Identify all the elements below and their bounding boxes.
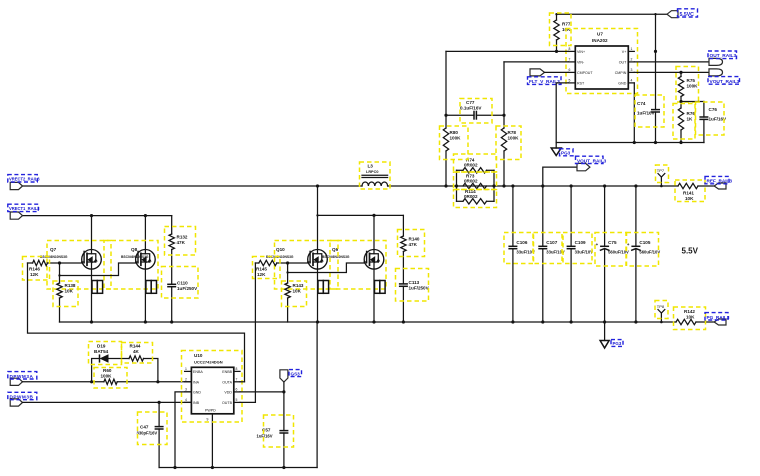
highlight boxes MOSFETs (47, 241, 111, 290)
svg-text:6: 6 (569, 68, 571, 72)
wire Q9 source (373, 269, 375, 322)
svg-text:VIN-: VIN- (577, 60, 585, 64)
wire 5.5VC top rail (557, 13, 668, 15)
port VRECT1_RAIL3 (8, 204, 40, 219)
svg-text:8: 8 (236, 367, 238, 371)
wire right drain branch (y=215.4) (318, 214, 404, 216)
svg-text:2: 2 (185, 378, 187, 382)
svg-text:INA202: INA202 (592, 38, 608, 43)
svg-text:C106: C106 (516, 240, 527, 245)
svg-text:CMPIN: CMPIN (615, 71, 627, 75)
port OUT_RAIL3 (708, 51, 737, 65)
svg-text:CMPOUT: CMPOUT (577, 71, 593, 75)
port 5.5VC (667, 9, 698, 18)
resistor R114 0R002 (454, 189, 497, 208)
wire Q8 source (144, 269, 146, 322)
resistor R144 4K (122, 343, 158, 382)
svg-text:10K: 10K (685, 196, 694, 201)
svg-text:BSC046N10NS3G: BSC046N10NS3G (40, 255, 68, 259)
svg-text:C47: C47 (140, 425, 149, 430)
svg-text:4: 4 (185, 398, 187, 402)
wire main VRECT2 rail (y=186) (23, 185, 363, 187)
wire OUTB corner (240, 401, 255, 403)
capacitor C77 0.1uF/16V (444, 99, 505, 124)
resistor R146 12K gate feed (23, 257, 82, 281)
svg-text:FLT_V_RAIL3: FLT_V_RAIL3 (529, 79, 560, 85)
capacitor C75 560uF/10V (596, 184, 629, 323)
wire V+ riser (655, 14, 657, 51)
transistor Q9 BSC046N10NS3G (322, 247, 384, 269)
capacitor C110 1uF/250V (162, 267, 199, 323)
svg-text:VRECT2_RAIL3: VRECT2_RAIL3 (9, 177, 40, 182)
svg-text:L3: L3 (368, 164, 374, 169)
capacitor C57 1uF/16V (257, 392, 294, 468)
wire Q9 drain riser (373, 215, 375, 249)
svg-text:R144: R144 (130, 344, 141, 349)
svg-text:6: 6 (236, 388, 238, 392)
port REF_RAIL3 (705, 176, 732, 189)
svg-text:33uF/10V: 33uF/10V (575, 250, 594, 255)
wire OUTA to left-pair feed (240, 381, 245, 383)
capacitor C106 33uF/10V (508, 184, 535, 323)
svg-text:1: 1 (631, 47, 633, 51)
svg-text:RST: RST (577, 81, 585, 85)
resistor R60 100K (94, 368, 127, 389)
wire OUTA feed line (y=333) (28, 263, 245, 382)
svg-text:12K: 12K (257, 272, 266, 277)
port PG_RAIL3 (705, 313, 730, 325)
svg-text:100K: 100K (101, 374, 113, 379)
svg-text:GND: GND (618, 81, 626, 85)
svg-text:BAT54: BAT54 (94, 349, 109, 354)
svg-text:R78: R78 (508, 130, 517, 135)
svg-text:10K: 10K (293, 289, 302, 294)
wire PGND bus (y=322) (60, 321, 677, 323)
svg-text:1K: 1K (687, 117, 694, 122)
svg-text:C109: C109 (575, 240, 586, 245)
svg-text:330pF/16V: 330pF/16V (137, 431, 158, 436)
svg-text:33uF/10V: 33uF/10V (516, 250, 535, 255)
wire INA line (23, 381, 104, 383)
svg-text:Q7: Q7 (50, 247, 57, 252)
wire INB line (23, 401, 192, 403)
test point TP7 (656, 165, 669, 187)
svg-text:Q10: Q10 (276, 247, 285, 252)
wire VDD line (240, 391, 284, 393)
svg-text:4K: 4K (133, 349, 140, 354)
pin 9 pad stub (211, 414, 213, 468)
wire analog ground bus (556, 142, 704, 144)
resistor R76 1K (673, 102, 695, 143)
svg-text:INB: INB (193, 401, 200, 405)
svg-text:9: 9 (207, 418, 209, 422)
wire VIN- sense (504, 61, 568, 63)
svg-text:1uF/16V: 1uF/16V (637, 111, 656, 116)
resistor R77 10K (550, 13, 572, 53)
svg-text:TP8: TP8 (657, 304, 665, 309)
svg-text:VOUT_RAIL3: VOUT_RAIL3 (710, 79, 740, 85)
capacitor C109 33uF/10V (567, 184, 594, 323)
resistor R142 10K (674, 307, 715, 330)
svg-text:PG3: PG3 (561, 151, 571, 156)
svg-text:10K: 10K (686, 315, 695, 320)
svg-text:R143: R143 (293, 283, 304, 288)
svg-text:PG_RAIL3: PG_RAIL3 (707, 315, 730, 320)
port DPWM3B (8, 392, 37, 406)
svg-text:4: 4 (631, 79, 633, 83)
svg-text:3: 3 (185, 388, 187, 392)
port VOUT_RAIL3 (mid) (576, 156, 607, 171)
port VOUT_RAIL3 (top) (708, 69, 740, 85)
svg-text:100K: 100K (450, 136, 462, 141)
svg-text:R75: R75 (687, 78, 696, 83)
svg-text:TP7: TP7 (657, 168, 665, 173)
svg-text:ENBB: ENBB (222, 370, 232, 374)
wire Q10 drain column from main rail (317, 186, 319, 250)
op-amp U7 INA202 (566, 29, 638, 94)
svg-text:PWPD: PWPD (205, 409, 216, 413)
gate clamp dual-box (146, 281, 157, 294)
svg-text:C113: C113 (409, 280, 420, 285)
svg-text:47K: 47K (177, 240, 186, 245)
svg-text:0R002: 0R002 (464, 163, 478, 168)
ground PG3 (bottom) (600, 322, 623, 348)
svg-text:C105: C105 (639, 240, 650, 245)
resistor R140 47K snubber (398, 215, 425, 284)
svg-text:ENBA: ENBA (193, 370, 203, 374)
svg-text:OUTA: OUTA (222, 380, 232, 384)
gate clamp dual-box (318, 281, 329, 294)
wire CMPIN to port (634, 71, 709, 73)
svg-text:7: 7 (569, 58, 571, 62)
capacitor C105 560uF/10V (627, 184, 660, 323)
resistor R143 10K gate pulldown (282, 273, 307, 323)
svg-text:R145: R145 (256, 267, 267, 272)
svg-text:LRPC0: LRPC0 (366, 170, 378, 174)
svg-text:100K: 100K (508, 136, 520, 141)
svg-text:1uF/250V: 1uF/250V (177, 286, 198, 291)
svg-text:7: 7 (236, 378, 238, 382)
svg-text:560uF/10V: 560uF/10V (639, 250, 660, 255)
svg-text:U10: U10 (194, 353, 203, 358)
wire Q7 drain riser (91, 216, 93, 250)
svg-text:VDD: VDD (224, 390, 232, 394)
wire riser to bottom bus (316, 322, 318, 468)
test point TP8 (655, 301, 668, 324)
svg-text:OUTB: OUTB (222, 401, 233, 405)
port DPWM3A (8, 372, 37, 386)
svg-text:DPWM3A: DPWM3A (10, 374, 34, 379)
svg-text:Q8: Q8 (131, 247, 138, 252)
wire OUT to port (634, 61, 709, 63)
resistor R73 0R002 (in line) (454, 172, 497, 190)
wire Q10 source (317, 269, 319, 322)
svg-text:0R002: 0R002 (464, 194, 478, 199)
svg-text:8: 8 (569, 47, 571, 51)
svg-text:PG3: PG3 (613, 341, 622, 346)
svg-text:GND: GND (193, 390, 201, 394)
wire GND pin riser (633, 83, 635, 143)
svg-text:R146: R146 (29, 267, 40, 272)
highlight boxes cap bank (504, 233, 533, 264)
wire VOUT tap (543, 167, 577, 186)
svg-text:C110: C110 (177, 281, 188, 286)
svg-text:5: 5 (569, 79, 571, 83)
capacitor C74 1uF/16V (635, 51, 664, 142)
svg-text:R141: R141 (683, 191, 694, 196)
IC U10 UCC27424DGN gate driver (182, 351, 243, 468)
svg-text:10K: 10K (65, 289, 74, 294)
capacitor C107 33uF/10V (538, 184, 565, 323)
capacitor C113 1uF/250V (396, 269, 430, 323)
svg-text:C75: C75 (608, 240, 617, 245)
svg-text:C77: C77 (466, 100, 475, 105)
svg-text:100K: 100K (687, 84, 699, 89)
wire U10 GND riser (175, 392, 191, 468)
resistor R138 10K gate pulldown (53, 276, 78, 323)
svg-text:0.1uF/16V: 0.1uF/16V (460, 106, 482, 111)
svg-text:R60: R60 (103, 368, 112, 373)
inductor L3 (360, 162, 391, 189)
svg-text:1: 1 (185, 367, 187, 371)
svg-text:+: + (596, 242, 599, 247)
wire OUTB riser (254, 263, 256, 402)
svg-text:C74: C74 (637, 101, 646, 106)
svg-text:INA: INA (193, 380, 200, 384)
svg-text:OUT: OUT (619, 60, 627, 64)
svg-text:U7: U7 (597, 32, 603, 37)
transistor Q10 BSC046N10NS3G (266, 247, 327, 269)
svg-text:R138: R138 (65, 283, 76, 288)
port FLT_V_RAIL3 (528, 69, 569, 85)
svg-text:R140: R140 (409, 237, 420, 242)
svg-text:+: + (627, 242, 630, 247)
gate clamp dual-box (375, 281, 386, 294)
svg-text:5.5VC: 5.5VC (680, 12, 695, 18)
wire Q7 source (91, 269, 93, 322)
wire gate interconnect Q10-Q9 (288, 263, 365, 273)
svg-text:VIN+: VIN+ (577, 50, 585, 54)
diode D19 BAT54 (89, 342, 130, 382)
svg-text:R80: R80 (450, 130, 459, 135)
capacitor C76 1uF/16V (696, 102, 728, 143)
resistor R145 12K gate feed (253, 257, 308, 279)
transistor Q8 BSC046N10NS3G (121, 247, 155, 269)
gate clamp dual-box (92, 281, 103, 294)
shunt rail stubs (456, 170, 458, 201)
svg-text:1uF/250V: 1uF/250V (409, 286, 430, 291)
wire R75/R76 node (681, 101, 704, 103)
svg-text:R142: R142 (684, 309, 695, 314)
resistor R132 47K snubber (165, 216, 196, 285)
resistor R80 100K (440, 51, 469, 186)
svg-text:5.5V: 5.5V (682, 247, 699, 256)
svg-text:R77: R77 (562, 22, 571, 27)
svg-text:12K: 12K (30, 272, 39, 277)
svg-text:D19: D19 (97, 344, 106, 349)
svg-text:UCC27424DGN: UCC27424DGN (194, 360, 223, 365)
svg-text:0R002: 0R002 (464, 179, 478, 184)
svg-text:C107: C107 (546, 240, 557, 245)
svg-text:R76: R76 (687, 111, 696, 116)
svg-text:2: 2 (631, 58, 633, 62)
wire VRECT1 rail (y=215.6) (23, 215, 172, 217)
transistor Q7 BSC046N10NS3G (40, 247, 101, 269)
svg-text:REF_RAIL3: REF_RAIL3 (707, 179, 733, 184)
svg-text:3: 3 (631, 68, 633, 72)
wire RST riser (556, 83, 568, 143)
svg-text:R132: R132 (177, 235, 188, 240)
resistor R78 100K (496, 62, 521, 186)
svg-text:DPWM3B: DPWM3B (10, 395, 34, 400)
svg-text:BSC046N10NS3G: BSC046N10NS3G (322, 255, 350, 259)
resistor R141 10K (675, 180, 714, 202)
svg-text:C76: C76 (709, 107, 718, 112)
svg-text:VRECT1_RAIL3: VRECT1_RAIL3 (9, 206, 40, 211)
capacitor C47 330pF/16V (137, 402, 168, 467)
svg-text:GS3: GS3 (291, 371, 301, 376)
wire gate interconnect Q7-Q8 (60, 263, 136, 276)
svg-text:OUT_RAIL3: OUT_RAIL3 (710, 53, 737, 59)
wire driver ground bus (y=467.5) (159, 467, 317, 469)
svg-text:1uF/16V: 1uF/16V (257, 434, 273, 439)
resistor R75 100K (676, 67, 699, 103)
ground PGND (PG3) (551, 143, 573, 156)
wire Q8 drain riser (144, 216, 146, 250)
port VRECT2_RAIL3 (8, 175, 40, 190)
svg-text:V+: V+ (622, 50, 627, 54)
svg-text:BSC046N10NS3G: BSC046N10NS3G (121, 255, 149, 259)
resistor R74 0R002 (454, 154, 497, 173)
svg-text:VOUT_RAIL3: VOUT_RAIL3 (577, 158, 607, 163)
svg-text:47K: 47K (409, 242, 418, 247)
svg-text:5: 5 (236, 398, 238, 402)
port GS3 (gate supply) (280, 370, 302, 392)
wire VIN+ sense (446, 50, 568, 52)
